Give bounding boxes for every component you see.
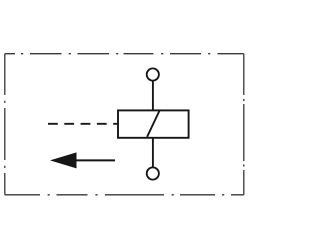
enclosure outline, bottom edge <box>5 194 244 196</box>
enclosure outline (dash-dot housing boundary), top edge <box>5 53 244 55</box>
component body (rectangle) <box>118 110 189 137</box>
motion arrow shaft <box>75 159 115 161</box>
diagonal stroke inside body <box>147 111 159 137</box>
enclosure outline, right edge <box>243 54 245 195</box>
wire (top terminal to body) <box>152 82 154 110</box>
mechanical link (dashed line) <box>48 123 117 125</box>
motion arrow head <box>50 152 77 168</box>
terminal (top circle) <box>147 68 159 80</box>
enclosure outline, left edge <box>4 54 6 195</box>
terminal (bottom circle) <box>147 167 159 179</box>
wire (body to bottom terminal) <box>152 138 154 168</box>
